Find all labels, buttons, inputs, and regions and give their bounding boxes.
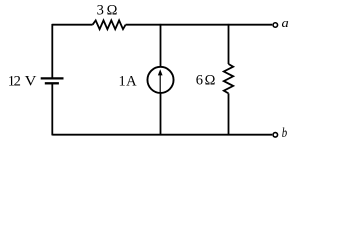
wire top horizontal (resistor to terminal a) <box>126 24 273 26</box>
current source I1 1A circle <box>147 67 173 93</box>
svg-text:12: 12 <box>8 73 21 89</box>
wire left vertical upper (top node down to battery + plate) <box>51 24 53 78</box>
svg-text:V: V <box>25 73 37 89</box>
svg-text:6 Ω: 6 Ω <box>196 72 216 88</box>
wire current-source branch upper (top wire down to circle) <box>160 24 162 67</box>
terminal a (open circle) <box>273 23 278 28</box>
wire 6-ohm branch upper (top wire down to zigzag) <box>228 24 230 64</box>
battery V1 12V top plate (long, positive) <box>41 77 64 79</box>
svg-text:1 A: 1 A <box>119 74 138 90</box>
battery V1 12V bottom plate (short, negative) <box>45 82 59 84</box>
wire left vertical lower (battery - plate down to bottom node) <box>51 84 53 136</box>
wire top-left horizontal (battery node to 3-ohm resistor) <box>52 24 92 26</box>
wire 6-ohm branch lower (zigzag down to bottom wire) <box>228 93 230 135</box>
resistor R 3-ohm (horizontal zigzag on top wire) <box>93 20 126 29</box>
svg-text:a: a <box>282 15 290 30</box>
current source arrow shaft (pointing up) <box>159 75 161 93</box>
current source arrowhead <box>158 69 163 75</box>
wire current-source branch lower (circle down to bottom wire) <box>160 93 162 135</box>
svg-text:3 Ω: 3 Ω <box>97 3 118 19</box>
terminal b (open circle) <box>273 133 278 138</box>
resistor R 6-ohm (vertical zigzag) <box>224 64 233 93</box>
wire bottom horizontal (left node to terminal b) <box>52 134 272 136</box>
svg-text:b: b <box>282 126 287 141</box>
